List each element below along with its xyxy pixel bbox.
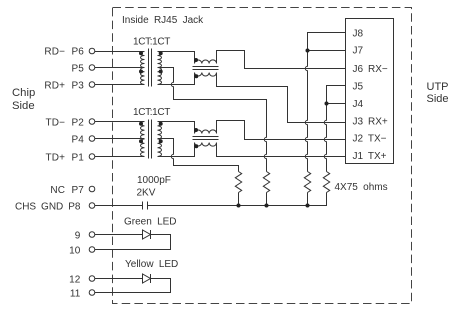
svg-text:UTP: UTP [427,81,449,93]
svg-text:9: 9 [75,230,81,241]
svg-text:Inside RJ45 Jack: Inside RJ45 Jack [122,15,204,26]
svg-text:J5: J5 [353,82,364,93]
svg-text:Side: Side [427,93,449,105]
svg-text:J2 TX−: J2 TX− [353,134,387,145]
svg-text:RD− P6: RD− P6 [44,46,84,57]
svg-text:Side: Side [12,100,35,112]
svg-text:J1 TX+: J1 TX+ [353,151,387,162]
svg-text:NC P7: NC P7 [50,185,84,196]
svg-text:Chip: Chip [12,87,35,99]
svg-text:TD+ P1: TD+ P1 [46,152,85,163]
svg-text:Green LED: Green LED [124,217,177,228]
svg-text:10: 10 [69,245,81,256]
svg-text:RD+ P3: RD+ P3 [44,80,84,91]
svg-text:P4: P4 [71,134,84,145]
svg-text:1CT:1CT: 1CT:1CT [133,107,170,118]
svg-text:11: 11 [70,288,81,299]
svg-text:2KV: 2KV [137,188,156,199]
svg-text:P5: P5 [71,63,84,74]
svg-text:1CT:1CT: 1CT:1CT [133,37,170,48]
svg-text:TD− P2: TD− P2 [46,117,85,128]
svg-text:J3 RX+: J3 RX+ [353,117,388,128]
svg-text:J6 RX−: J6 RX− [353,64,388,75]
svg-text:J7: J7 [353,46,364,57]
svg-text:12: 12 [69,274,81,285]
svg-text:J8: J8 [353,29,364,40]
svg-text:J4: J4 [353,99,364,110]
svg-text:1000pF: 1000pF [137,175,171,186]
svg-text:Yellow LED: Yellow LED [125,259,178,270]
svg-text:4X75 ohms: 4X75 ohms [335,182,388,193]
svg-text:CHS GND P8: CHS GND P8 [15,201,81,212]
